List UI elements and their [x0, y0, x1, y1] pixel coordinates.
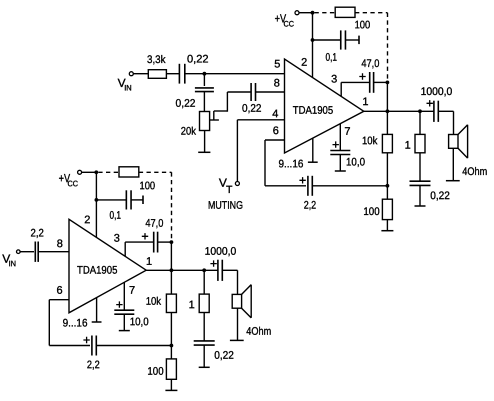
svg-text:0,22: 0,22	[430, 190, 450, 202]
wire shunt cap to pot 20k	[203, 92, 205, 112]
wire C 0,22 to pin 8	[256, 91, 285, 93]
op-amp U2 TDA1905 (bottom)	[69, 219, 146, 312]
wire output to R 10k	[386, 111, 388, 134]
ground (C 10,0 top)	[335, 170, 346, 172]
wire junction down to C 0,22 shunt	[203, 74, 205, 86]
ground (C 10,0 bottom)	[119, 330, 130, 332]
wire R 1 to C 0,22 zobel	[419, 153, 421, 181]
wire wiper to pin 8 row	[214, 110, 228, 112]
node feedback junction (bottom)	[170, 344, 174, 348]
resistor R 1 (top)	[415, 134, 425, 152]
svg-text:0,22: 0,22	[242, 103, 262, 115]
svg-text:0,1: 0,1	[109, 210, 121, 222]
dashed wire +Vcc to bootstrap R 100 (bottom)	[98, 171, 119, 173]
wire R 1 to C 0,22 zobel (bottom)	[203, 313, 205, 341]
plus sign of C 10,0	[333, 141, 339, 147]
capacitor C 0,22 (series input, top)	[178, 64, 180, 84]
wire pin 3 vertical (bottom)	[124, 242, 126, 256]
terminal +Vcc (bottom)	[78, 170, 82, 174]
svg-text:1: 1	[405, 140, 411, 152]
resistor R 10k (bottom)	[166, 294, 176, 312]
svg-text:47,0: 47,0	[361, 58, 379, 70]
node bootstrap junction (bottom)	[170, 240, 174, 244]
resistor R 100 (bootstrap, top, on dashed line)	[335, 7, 355, 17]
capacitor C 2,2 (feedback, top)	[307, 176, 309, 196]
wire output to R 10k (bottom)	[170, 270, 172, 294]
terminal V_IN (top channel input)	[129, 72, 133, 76]
wire to C 0,1 (bottom)	[96, 199, 126, 201]
op-amp U1 TDA1905 (top)	[285, 59, 364, 153]
svg-text:10k: 10k	[362, 135, 378, 147]
svg-text:100: 100	[363, 206, 379, 218]
wire R 10k to feedback node (bottom)	[170, 313, 172, 346]
resistor R 100 (feedback, bottom)	[166, 359, 176, 379]
svg-text:2,2: 2,2	[87, 359, 100, 371]
node +Vcc junction (bottom)	[94, 170, 98, 174]
terminal V_T muting	[235, 182, 239, 186]
terminal V_IN (bottom channel input)	[17, 250, 21, 254]
wire +Vcc to pin 2 node	[299, 12, 313, 14]
resistor R 3,3k	[148, 70, 166, 79]
wire output to R 1	[419, 111, 421, 134]
wire pin 2 vertical	[312, 13, 314, 78]
ground (speaker bottom)	[230, 339, 244, 341]
svg-text:1000,0: 1000,0	[421, 86, 453, 98]
svg-text:10,0: 10,0	[130, 316, 149, 328]
node junction at input/pin5	[203, 72, 207, 76]
wire pin 3 vertical	[340, 82, 342, 96]
svg-text:4Ohm: 4Ohm	[246, 326, 271, 338]
ground (speaker top)	[446, 180, 460, 182]
wire pin 3 to C 47,0 (bottom)	[125, 241, 153, 243]
wire C 1000,0 to speaker (bottom)	[222, 269, 237, 271]
plus sign of C 10,0 (bottom)	[116, 301, 122, 307]
svg-text:47,0: 47,0	[145, 218, 163, 230]
wire C 0,1 end	[345, 39, 359, 41]
svg-text:T: T	[226, 184, 233, 196]
node pin2/C 0,1 junction (bottom)	[95, 198, 99, 202]
plus sign of C 2,2	[299, 177, 305, 183]
svg-text:CC: CC	[67, 179, 78, 188]
speaker LS2 4 Ohm (bottom)	[232, 294, 241, 308]
svg-text:1: 1	[362, 96, 368, 108]
ground (zobel bottom)	[199, 366, 210, 368]
wire pin 7 to C 10,0	[339, 124, 341, 151]
node output/10k junction (top)	[386, 109, 390, 113]
wire pin 4 muting row	[237, 119, 284, 121]
capacitor C 1000,0 (output, top)	[433, 101, 435, 122]
svg-text:8: 8	[57, 238, 63, 250]
pot wiper arm	[210, 119, 219, 121]
node feedback junction (top)	[386, 184, 390, 188]
wire C 2,2 to feedback node (bottom)	[96, 345, 171, 347]
wire output row (top)	[364, 110, 434, 112]
wire C 1000,0 to speaker	[438, 110, 453, 112]
dashed wire bootstrap R to corner	[355, 12, 388, 14]
potentiometer 20k body	[200, 112, 210, 131]
wire R 3,3k to C 0,22	[166, 73, 179, 75]
svg-text:3: 3	[331, 73, 337, 85]
svg-text:6: 6	[273, 125, 279, 137]
plus sign of C 47,0	[359, 73, 365, 79]
capacitor C 2,2 (feedback, bottom)	[91, 336, 93, 356]
wire pin 2 vertical (bottom)	[95, 172, 97, 237]
svg-text:1000,0: 1000,0	[205, 246, 237, 258]
ground (zobel top)	[415, 205, 426, 207]
svg-text:2,2: 2,2	[30, 228, 43, 240]
wire feedback node to R 100 (bottom)	[170, 346, 172, 359]
ground (pot 20k)	[198, 151, 210, 153]
wire pin 3 to C 47,0	[341, 81, 369, 83]
svg-text:9...16: 9...16	[63, 318, 88, 330]
svg-text:IN: IN	[9, 259, 17, 268]
wire pin 6 row (bottom)	[49, 299, 69, 301]
svg-text:7: 7	[344, 126, 350, 138]
plus sign of C 2,2 (bottom)	[83, 337, 89, 343]
capacitor C 0,22 (zobel, bottom)	[194, 340, 215, 342]
svg-text:10k: 10k	[146, 296, 162, 308]
wire zobel to ground (bottom)	[203, 345, 205, 367]
resistor R 100 (bootstrap, bottom, on dashed line)	[119, 167, 139, 177]
svg-text:0,22: 0,22	[214, 350, 234, 362]
dashed wire corner down to C 47,0 node	[387, 13, 389, 83]
svg-text:0,22: 0,22	[175, 98, 195, 110]
ground pins 9...16 (bottom)	[96, 298, 98, 322]
capacitor C 47,0 (bottom)	[153, 232, 155, 253]
node output/1 ohm junction (bottom)	[202, 268, 206, 272]
plus sign of C 1000,0	[427, 100, 433, 106]
wire C 10,0 to ground (bottom)	[123, 314, 125, 330]
svg-text:MUTING: MUTING	[208, 200, 243, 212]
wire C 10,0 to ground	[339, 155, 341, 171]
wire pin 4 down to V_T terminal	[236, 120, 238, 182]
resistor R 100 (feedback, top)	[382, 199, 392, 219]
svg-text:CC: CC	[283, 20, 294, 29]
capacitor C 0,22 (shunt to pot)	[195, 87, 214, 89]
resistor R 10k (top)	[382, 134, 392, 152]
svg-text:6: 6	[57, 285, 63, 297]
wire feedback node to R 100	[386, 186, 388, 199]
wire C 2,2 to pin 8	[38, 251, 69, 253]
wire R 10k to feedback node	[386, 153, 388, 186]
svg-text:0,22: 0,22	[187, 54, 209, 66]
ground (R 100 bottom)	[165, 389, 177, 391]
svg-text:100: 100	[355, 19, 371, 31]
wire R 100 to ground	[386, 220, 388, 231]
ground pins 9...16 (top)	[312, 138, 314, 162]
wire R 100 to ground (bottom)	[170, 379, 172, 390]
dashed wire +Vcc to bootstrap R 100	[315, 12, 336, 14]
svg-text:4: 4	[272, 108, 278, 120]
wire V_IN to C 2,2 input	[20, 251, 34, 253]
wire pin 6 row	[265, 139, 285, 141]
wire output to R 1 (bottom)	[203, 270, 205, 294]
node output/10k junction (bottom)	[170, 268, 174, 272]
svg-text:3: 3	[114, 233, 120, 245]
capacitor C 1000,0 (output, bottom)	[217, 260, 219, 281]
svg-text:1: 1	[189, 299, 195, 311]
plus sign of C 47,0 (bottom)	[142, 233, 148, 239]
ground (R 100 top)	[381, 230, 393, 232]
svg-text:TDA1905: TDA1905	[77, 265, 117, 277]
wire pin 7 to C 10,0 (bottom)	[123, 282, 125, 310]
node bootstrap junction (top)	[386, 81, 390, 85]
svg-text:5: 5	[274, 58, 280, 70]
capacitor C 0,1 (top)	[340, 30, 342, 49]
svg-text:4Ohm: 4Ohm	[462, 166, 487, 178]
svg-text:20k: 20k	[181, 126, 197, 138]
svg-text:TDA1905: TDA1905	[293, 105, 333, 117]
wire bootstrap node down to output (bottom)	[170, 242, 172, 270]
speaker LS1 4 Ohm (top)	[449, 135, 458, 149]
wire to pin 5 with junction	[184, 73, 284, 75]
capacitor C 10,0 (bottom)	[114, 309, 134, 311]
wire zobel to ground	[419, 185, 421, 206]
svg-text:3,3k: 3,3k	[147, 54, 166, 66]
svg-text:100: 100	[147, 366, 163, 378]
node pin2/C 0,1 junction	[311, 38, 315, 42]
node +Vcc junction (top)	[311, 11, 315, 15]
terminal +Vcc (top)	[295, 11, 299, 15]
wire +Vcc to pin 2 node (bottom)	[82, 171, 97, 173]
svg-text:100: 100	[139, 180, 155, 192]
wire C 47,0 to bootstrap node (bottom)	[158, 241, 172, 243]
svg-text:10,0: 10,0	[346, 157, 365, 169]
capacitor C 47,0 (top)	[369, 72, 371, 93]
wire wiper branch to C 0,22 pin8	[227, 91, 251, 93]
resistor R 1 (bottom)	[199, 294, 209, 312]
wire C 47,0 to bootstrap node	[374, 81, 388, 83]
svg-text:7: 7	[129, 285, 135, 297]
wire speaker to ground (top)	[452, 148, 454, 180]
svg-text:8: 8	[274, 77, 280, 89]
svg-text:1: 1	[146, 256, 152, 268]
svg-text:2: 2	[84, 214, 90, 226]
wire C 2,2 to feedback node	[312, 185, 387, 187]
capacitor C 10,0 (top)	[330, 150, 350, 152]
wire pin 6 down and to feedback cap	[264, 140, 266, 186]
capacitor C 0,22 (zobel, top)	[410, 180, 431, 182]
wire pin 6 down to feedback cap (bottom)	[48, 300, 50, 346]
svg-text:0,1: 0,1	[325, 52, 337, 64]
wire V_IN to R 3,3k	[133, 73, 148, 75]
capacitor C 0,22 (pin 8, top)	[250, 83, 252, 101]
wire to C 0,1	[313, 39, 341, 41]
wire speaker to ground (bottom)	[237, 308, 239, 340]
svg-text:9...16: 9...16	[278, 158, 303, 170]
svg-text:IN: IN	[124, 84, 132, 93]
dashed wire corner down to C 47,0 node (bottom)	[171, 172, 173, 242]
svg-text:2,2: 2,2	[304, 200, 317, 212]
wire pot bottom to ground	[204, 131, 206, 153]
wire C 0,1 end (bottom)	[131, 199, 143, 201]
capacitor C 0,1 (bottom)	[125, 190, 127, 209]
capacitor C 2,2 (series input, bottom)	[34, 242, 36, 262]
wire output row (bottom)	[146, 269, 218, 271]
plus sign of C 1000,0 (bottom)	[210, 260, 216, 266]
node output/1 ohm junction (top)	[418, 109, 422, 113]
svg-text:2: 2	[301, 57, 307, 69]
dashed wire bootstrap R to corner (bottom)	[139, 171, 172, 173]
wire bootstrap node down to output	[386, 82, 388, 111]
